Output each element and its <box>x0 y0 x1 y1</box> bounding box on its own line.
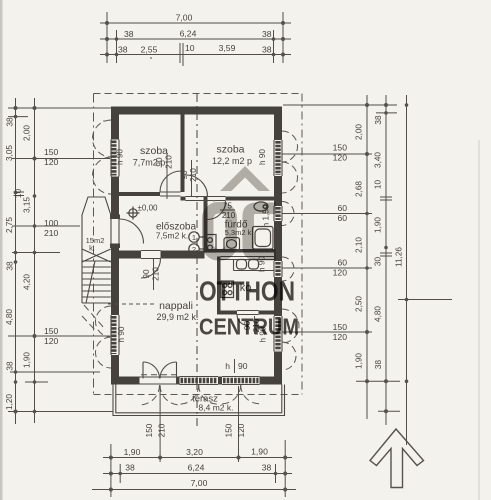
svg-text:2: 2 <box>192 245 196 254</box>
svg-text:29,9 m2 k.: 29,9 m2 k. <box>156 312 198 322</box>
right exterior wall segment 4 <box>274 277 282 316</box>
bottom dimension row 3 line (7,00) <box>92 489 296 491</box>
right extension line y=105 <box>283 104 397 106</box>
right exterior wall segment 3 <box>274 221 282 261</box>
stair cross brace X <box>82 249 111 262</box>
svg-text:2,10: 2,10 <box>355 237 364 253</box>
svg-text:38: 38 <box>6 117 15 127</box>
eloszoba-nappali door label fraction line <box>153 259 155 290</box>
interior wall szoba2 bottom stub <box>181 197 186 201</box>
window terrace bottom wall B <box>222 376 260 378</box>
svg-text:60: 60 <box>337 203 347 213</box>
svg-text:90: 90 <box>142 269 151 279</box>
kitchen stove block <box>221 281 234 298</box>
exterior stair bottom edge <box>82 302 111 304</box>
callout circle 2 <box>189 244 199 254</box>
window nappali right wall <box>273 316 275 352</box>
bath small basin unit <box>205 235 217 253</box>
svg-text:2,75: 2,75 <box>5 217 14 233</box>
shutter arc szoba1 window lower <box>93 157 112 194</box>
svg-text:OTTHON: OTTHON <box>199 276 295 307</box>
nappali dashed leader line <box>108 303 154 305</box>
kitchen top wall double line <box>221 256 275 258</box>
kitchen counter <box>233 260 235 271</box>
svg-text:6,24: 6,24 <box>180 29 197 39</box>
svg-text:±0,00: ±0,00 <box>138 204 159 213</box>
svg-text:12,2 m2 p: 12,2 m2 p <box>212 156 252 166</box>
svg-text:1,90: 1,90 <box>251 447 268 457</box>
shutter arc szoba1 window upper <box>93 120 112 157</box>
bottom dimension row 2 line (38/6,24/38) <box>103 473 292 475</box>
left outer dimension chain line <box>15 98 17 424</box>
svg-text:1,90: 1,90 <box>23 352 32 368</box>
svg-text:3,59: 3,59 <box>219 43 236 53</box>
svg-text:38: 38 <box>118 45 128 55</box>
svg-text:7,5m2 k.: 7,5m2 k. <box>156 231 189 241</box>
bath tub outer <box>253 227 274 250</box>
window terrace bottom wall A <box>180 376 219 378</box>
svg-text:150: 150 <box>333 143 348 153</box>
svg-text:38: 38 <box>125 463 135 473</box>
right extension line y=268 kitchen window <box>282 267 372 269</box>
right extension line y=154 window centre <box>282 153 372 155</box>
interior kitchen left wall <box>217 257 221 315</box>
svg-text:4,80: 4,80 <box>5 309 14 325</box>
left extension line y=252.5 <box>12 252 60 254</box>
exterior stair porch bay <box>82 197 111 215</box>
svg-text:11,26: 11,26 <box>395 247 404 267</box>
svg-text:2,00: 2,00 <box>355 124 364 140</box>
svg-text:10: 10 <box>14 189 23 199</box>
svg-text:210: 210 <box>158 423 167 437</box>
svg-text:h 90: h 90 <box>117 326 126 342</box>
section cut dash-dot line x=197 <box>196 94 198 428</box>
svg-text:3,05: 3,05 <box>5 145 14 161</box>
szoba2 door label fraction line <box>191 160 193 196</box>
svg-text:3,15: 3,15 <box>23 197 32 213</box>
svg-text:38: 38 <box>124 29 134 39</box>
bottom exterior wall segment 3 <box>218 377 222 385</box>
svg-text:1,90: 1,90 <box>355 353 364 369</box>
stair dashed continuation below <box>84 305 104 328</box>
fold mark line <box>398 299 452 301</box>
bottom extension line x=120.2 <box>119 464 121 483</box>
interior kitchen bottom wall right <box>259 311 275 315</box>
entrance door jamb blocks <box>110 215 120 220</box>
shutter arc szoba2 window lower <box>282 162 298 193</box>
svg-text:150: 150 <box>145 423 154 437</box>
bath tub inner <box>255 229 271 247</box>
french door arc right <box>160 362 177 379</box>
svg-text:8,4 m2 k.: 8,4 m2 k. <box>199 403 234 413</box>
eaves overhang dashed bottom <box>94 394 303 396</box>
shutter arc nappali left window lower <box>96 337 112 368</box>
top extension line x=283 <box>282 12 284 63</box>
svg-text:210: 210 <box>189 168 198 182</box>
window kitchen right wall <box>273 261 275 277</box>
eloszoba-nappali door head lines <box>141 250 161 252</box>
svg-text:38: 38 <box>262 463 272 473</box>
svg-text:1,20: 1,20 <box>5 394 14 410</box>
szoba2 door head lines <box>186 196 208 198</box>
terrace shutter arcs window A <box>180 385 199 404</box>
callout circle 1 <box>189 232 199 242</box>
left exterior wall segment 4 <box>111 355 119 385</box>
stair treads <box>82 260 111 262</box>
svg-text:2,68: 2,68 <box>355 181 364 197</box>
bottom exterior wall segment 4 <box>260 377 283 385</box>
left extension line y=382 <box>25 381 48 383</box>
shutter arc kitchen window <box>282 257 294 281</box>
svg-text:10: 10 <box>185 43 195 53</box>
svg-text:10: 10 <box>374 180 383 190</box>
eaves overhang dashed right <box>301 94 303 395</box>
left exterior wall segment 3 <box>111 244 119 316</box>
bottom exterior wall segment 1 <box>111 377 140 385</box>
paper edge shadow <box>478 140 480 500</box>
window szoba1 left wall <box>110 140 112 177</box>
szoba2 door swing arc <box>186 175 208 197</box>
level marker circle +-0,00 <box>129 209 137 217</box>
shutter arc nappali right window lower <box>282 342 296 370</box>
svg-text:4,20: 4,20 <box>23 274 32 290</box>
bottom extension line x=285.2 <box>284 440 286 497</box>
left extension line y=158.5 window centre <box>12 158 110 160</box>
top row ticks <box>105 21 109 25</box>
scan left edge strip <box>0 0 3 500</box>
top exterior wall <box>111 107 282 115</box>
left extension line y=372 <box>10 371 100 373</box>
left extension line y=226 door <box>12 225 80 227</box>
bath door swing arc <box>208 201 226 220</box>
svg-text:38: 38 <box>262 45 272 55</box>
terrace boundary inner <box>116 385 282 413</box>
right extension line y=112.9 <box>376 112 397 114</box>
svg-text:120: 120 <box>333 332 348 342</box>
bath door head lines <box>208 196 226 198</box>
svg-text:30: 30 <box>374 257 383 267</box>
right extension line y=332 lower window <box>282 331 372 333</box>
left extension line y=411.5 terrace <box>8 411 113 413</box>
top extension line x=273.5 <box>273 30 275 63</box>
svg-text:7,00: 7,00 <box>176 13 193 23</box>
svg-text:nappali: nappali <box>159 300 193 312</box>
svg-text:2,50: 2,50 <box>355 296 364 312</box>
top dimension row 2 line (38/6,24/38) <box>100 38 291 40</box>
svg-text:120: 120 <box>44 336 59 346</box>
scan speckle <box>150 57 152 59</box>
north arrow <box>370 429 424 488</box>
interior wall szoba2 bottom right of bath door <box>226 197 275 201</box>
svg-text:210: 210 <box>152 267 161 281</box>
interior kitchen bottom wall left <box>217 311 237 315</box>
right inner chain ticks <box>365 103 369 107</box>
top dimension row 1 line (7,00) <box>100 22 291 24</box>
right outer chain ticks <box>384 103 388 107</box>
svg-text:150: 150 <box>44 326 59 336</box>
french terrace door opening <box>140 376 181 378</box>
svg-text:6,24: 6,24 <box>188 463 205 473</box>
svg-text:k.: k. <box>89 244 95 253</box>
svg-text:szoba: szoba <box>216 144 244 156</box>
french door leaf right <box>176 362 178 379</box>
svg-text:2,55: 2,55 <box>141 45 158 55</box>
bottom extension line x=275.5 <box>275 464 277 483</box>
svg-text:150: 150 <box>44 147 59 157</box>
entrance door opening faces <box>110 219 112 244</box>
watermark letter O <box>208 208 232 255</box>
shutter arc szoba2 window upper <box>282 131 298 162</box>
right outer dimension chain line <box>385 95 387 425</box>
terrace boundary outer <box>113 385 285 416</box>
french door leaf left <box>142 362 144 379</box>
svg-text:150: 150 <box>333 322 348 332</box>
svg-text:100: 100 <box>44 218 59 228</box>
entrance door swing arc <box>119 219 144 244</box>
right extension line y=213.5 bath window <box>282 213 372 215</box>
svg-text:1: 1 <box>192 233 196 242</box>
svg-text:38: 38 <box>6 361 15 371</box>
svg-text:120: 120 <box>44 157 59 167</box>
left extension line y=108 <box>8 107 113 109</box>
top dimension row 3 line (38/2,55/10/3,59/38) <box>100 54 291 56</box>
szoba1 door swing arc <box>160 171 181 192</box>
svg-text:h: h <box>225 361 230 371</box>
interior wall szoba1 bottom <box>119 192 160 196</box>
left extension line y=116.6 <box>8 116 28 118</box>
svg-text:1,90: 1,90 <box>124 447 141 457</box>
terrace shutter arcs window B <box>222 385 241 404</box>
szoba1 door head lines <box>160 191 181 193</box>
bottom exterior wall segment 2 <box>176 377 180 385</box>
top extension line x=107 <box>106 12 108 63</box>
eloszoba-nappali door swing arc <box>141 259 161 279</box>
french door arc left <box>143 362 160 379</box>
kitchen door head lines <box>237 310 259 312</box>
shutter arc nappali right window upper <box>282 309 299 343</box>
watermark roof chevron <box>220 166 270 191</box>
svg-text:60: 60 <box>337 213 347 223</box>
shutter arc bath window <box>282 202 294 226</box>
svg-text:38: 38 <box>374 360 383 370</box>
svg-text:7,00: 7,00 <box>191 478 208 488</box>
kitchen door label fraction line <box>254 316 256 334</box>
window nappali left wall <box>110 315 112 355</box>
top extension double tick x=180/183 (10 wall) <box>179 43 181 63</box>
right exterior wall segment 5 <box>274 352 282 385</box>
svg-text:120: 120 <box>333 268 348 278</box>
interior wall szoba divider 10cm <box>181 115 185 193</box>
kitchen sink bowls <box>237 260 247 270</box>
svg-text:4,80: 4,80 <box>374 306 383 322</box>
eaves overhang dashed top <box>94 93 303 95</box>
watermark letter C <box>248 208 276 255</box>
svg-text:2,00: 2,00 <box>23 125 32 141</box>
svg-text:210: 210 <box>165 155 174 169</box>
svg-text:3,20: 3,20 <box>186 447 203 457</box>
interior eloszoba bottom thick wall right part <box>161 251 205 259</box>
svg-text:38: 38 <box>262 29 272 39</box>
exterior stair left edge <box>81 215 83 303</box>
svg-text:120: 120 <box>237 423 246 437</box>
bath washbasin oval <box>254 202 268 211</box>
svg-text:150: 150 <box>225 423 234 437</box>
top extension line x=116.5 <box>116 30 118 63</box>
right exterior wall segment 2 <box>274 176 282 206</box>
svg-text:90: 90 <box>180 170 189 180</box>
bottom extension line x=238.5 <box>238 386 240 462</box>
svg-text:38: 38 <box>6 261 15 271</box>
svg-text:3,40: 3,40 <box>374 152 383 168</box>
right inner dimension chain line <box>366 95 368 419</box>
stair walk line diagonal <box>86 261 95 303</box>
far right overall dimension line <box>406 95 408 445</box>
left extension line y=336 window centre <box>8 335 110 337</box>
right extension line y=381.3 <box>356 380 400 382</box>
bottom dimension row 1 line (1,90/3,20/1,90) <box>103 457 292 459</box>
window bath right wall <box>273 206 275 221</box>
right extension line y=411.2 <box>378 410 400 412</box>
svg-text:90: 90 <box>238 361 248 371</box>
window szoba2 right wall <box>273 140 275 176</box>
bottom extension line x=110.9 <box>110 444 112 497</box>
lintel dashes over french door <box>141 374 179 376</box>
kitchen door swing arc <box>237 315 248 326</box>
left inner chain ticks <box>33 106 37 110</box>
interior eloszoba bottom thick wall left part <box>111 251 141 259</box>
svg-text:38: 38 <box>374 115 383 125</box>
szoba1 door label fraction line <box>166 153 168 199</box>
terrace shutter arcs french door <box>140 385 160 405</box>
bottom extension line x=160.1 <box>159 386 161 462</box>
interior bath left wall <box>204 197 208 253</box>
left exterior wall segment 1 <box>111 107 119 140</box>
right exterior wall segment 1 <box>274 107 282 141</box>
left inner dimension chain line <box>34 98 36 423</box>
svg-text:120: 120 <box>333 153 348 163</box>
svg-text:CENTRUM: CENTRUM <box>199 314 299 340</box>
left exterior wall segment 2 <box>111 177 119 220</box>
bath WC <box>224 238 240 251</box>
svg-text:210: 210 <box>44 228 59 238</box>
eaves overhang dash-dot left <box>93 94 95 397</box>
bottom row ticks <box>109 456 113 460</box>
svg-text:h 90: h 90 <box>258 149 267 165</box>
interior bath bottom wall <box>204 249 275 253</box>
svg-text:1,90: 1,90 <box>374 217 383 233</box>
svg-text:90: 90 <box>155 157 164 167</box>
svg-text:h 90: h 90 <box>116 149 125 165</box>
left outer chain ticks <box>14 106 18 110</box>
shutter arc nappali left window upper <box>96 306 112 337</box>
svg-text:60: 60 <box>337 258 347 268</box>
